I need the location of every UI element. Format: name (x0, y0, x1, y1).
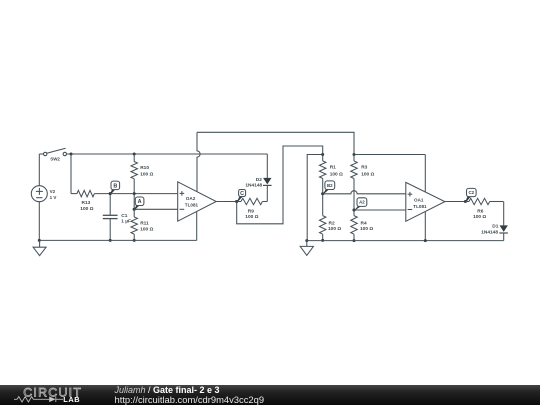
wire OA2 output to node C (216, 201, 237, 203)
op-amp OA2 TL081 (178, 182, 217, 221)
resistor R11 100Ω (133, 209, 135, 217)
junction OA1 V- bottom rail (424, 239, 427, 242)
wire down to R13 (70, 154, 72, 194)
voltage source V2 (31, 186, 47, 202)
svg-text:1N4148: 1N4148 (481, 230, 498, 236)
junction R11-bottom rail (133, 239, 136, 242)
svg-text:R6: R6 (477, 209, 483, 215)
wire OA2 V+ stub (hops over top rail) (197, 132, 200, 191)
wire node A2 to OA1 - input (354, 209, 406, 211)
svg-text:A: A (138, 199, 142, 205)
resistor R13 100Ω (71, 193, 77, 195)
svg-text:A2: A2 (359, 200, 365, 205)
op-amp OA1 TL081 (406, 182, 445, 221)
resistor R3 100Ω (353, 155, 355, 162)
resistor R6 100Ω (465, 201, 469, 203)
svg-text:100 Ω: 100 Ω (245, 214, 258, 220)
svg-text:B: B (113, 183, 117, 189)
resistor R9 100Ω (237, 201, 241, 203)
svg-text:R10: R10 (140, 165, 149, 171)
svg-text:R11: R11 (140, 221, 149, 227)
wire R10 to node A (133, 194, 135, 210)
svg-text:R1: R1 (330, 165, 336, 171)
svg-text:D1: D1 (492, 224, 498, 230)
node C (235, 200, 238, 203)
svg-text:LAB: LAB (63, 395, 80, 404)
node label B2 (322, 189, 329, 195)
wire V2 top to switch (38, 154, 40, 186)
svg-text:100 Ω: 100 Ω (328, 226, 341, 232)
junction R2-bottom rail (321, 239, 324, 242)
svg-text:100 Ω: 100 Ω (360, 226, 373, 232)
diode D1 1N4148 (503, 202, 505, 226)
node label B (110, 189, 116, 195)
svg-text:B2: B2 (327, 183, 333, 188)
node label A2 (354, 206, 362, 211)
resistor R2 100Ω (322, 194, 324, 216)
svg-text:TL081: TL081 (413, 204, 427, 209)
svg-text:100 Ω: 100 Ω (80, 206, 93, 212)
resistor R4 100Ω (353, 210, 355, 216)
junction top rail to R10 (133, 153, 136, 156)
node label A (134, 205, 140, 210)
junction R10 bottom (133, 192, 136, 195)
top rail (left section) (67, 153, 268, 155)
node A (133, 208, 136, 211)
CircuitLab logo (0, 385, 110, 405)
wire OA2 V- stub to bottom rail (196, 212, 198, 241)
wire node B to OA2 + input (110, 193, 178, 195)
svg-text:TL081: TL081 (185, 203, 199, 208)
wire OA1 V- stub to bottom rail (424, 212, 426, 241)
wire node A to OA2 - input (134, 208, 178, 210)
junction top rail to R13 (70, 153, 73, 156)
bottom rail (right section) (307, 240, 504, 242)
junction V2-ground (38, 239, 41, 242)
svg-text:OA2: OA2 (186, 196, 196, 201)
junction R4-bottom rail (353, 239, 356, 242)
switch SW2 (44, 152, 47, 155)
capacitor C1 1uF (109, 195, 111, 215)
node A2 (353, 209, 356, 212)
svg-text:OA1: OA1 (414, 198, 424, 203)
loop wire to right section (197, 132, 354, 154)
node B2 (321, 192, 324, 195)
bottom rail (left section) (39, 239, 196, 241)
wire OA1 V+ stub (424, 155, 426, 192)
svg-text:R2: R2 (329, 221, 335, 227)
svg-text:1 µF: 1 µF (121, 219, 131, 225)
svg-text:100 Ω: 100 Ω (361, 171, 374, 177)
wire R1 top to right bottom rail (307, 155, 323, 241)
node label C2 (465, 196, 471, 203)
svg-text:V2: V2 (50, 189, 56, 194)
svg-text:R13: R13 (82, 200, 91, 206)
svg-text:D2: D2 (256, 177, 262, 183)
node B (109, 192, 112, 195)
wire R3 top to OA1 V+ (354, 154, 425, 156)
ground (right) (305, 239, 308, 242)
svg-text:100 Ω: 100 Ω (140, 226, 153, 232)
feedback wire node C to R1 top (237, 146, 323, 224)
ground (left) (39, 240, 41, 247)
wire V2 bottom to ground rail (38, 202, 40, 241)
junction C1-bottom rail (109, 239, 112, 242)
resistor R10 100Ω (133, 154, 135, 162)
wire OA1 output to node C2 (445, 201, 466, 203)
wire node B2 to OA1 + input (323, 191, 406, 194)
svg-text:C2: C2 (468, 190, 474, 195)
resistor R1 100Ω (322, 155, 324, 161)
svg-text:C: C (240, 191, 244, 197)
diode D2 1N4148 (266, 154, 268, 178)
svg-text:SW2: SW2 (50, 156, 60, 161)
svg-text:100 Ω: 100 Ω (473, 214, 486, 220)
svg-text:R3: R3 (361, 165, 367, 171)
svg-text:100 Ω: 100 Ω (330, 171, 343, 177)
svg-text:1N4148: 1N4148 (245, 183, 262, 189)
svg-text:R4: R4 (361, 221, 367, 227)
junction R3 top / loop (353, 153, 356, 156)
svg-text:C1: C1 (121, 213, 127, 219)
node label C (236, 196, 243, 203)
svg-text:1 V: 1 V (50, 195, 57, 200)
svg-text:R9: R9 (248, 208, 254, 214)
svg-text:100 Ω: 100 Ω (140, 171, 153, 177)
junction R1 top (321, 153, 324, 156)
